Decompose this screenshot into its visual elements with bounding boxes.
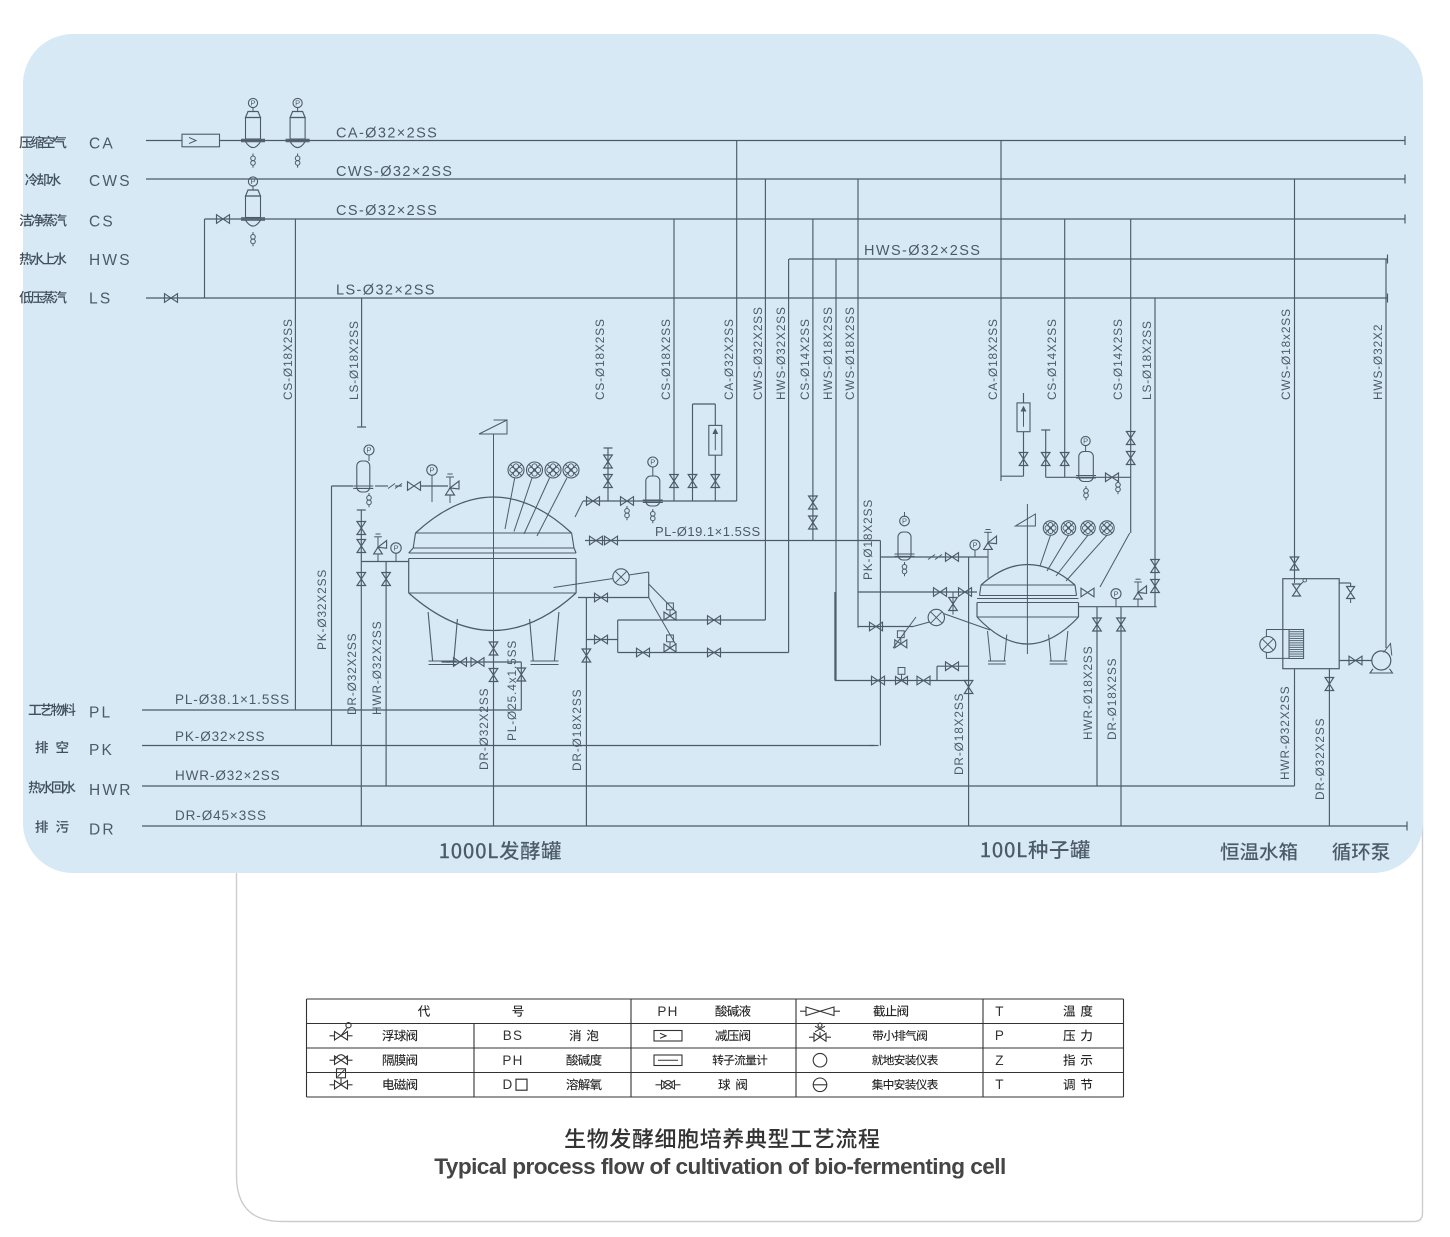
svg-text:DR-Ø18X2SS: DR-Ø18X2SS [1105,658,1119,740]
svg-text:HWR-Ø32X2SS: HWR-Ø32X2SS [370,621,384,715]
svg-text:LS: LS [89,291,112,308]
svg-text:Z: Z [995,1053,1004,1068]
svg-text:T: T [995,1004,1004,1019]
svg-text:HWS-Ø32X2: HWS-Ø32X2 [1371,324,1385,400]
svg-text:HWS-Ø18X2SS: HWS-Ø18X2SS [821,306,835,400]
svg-text:P: P [1113,589,1118,598]
svg-text:P: P [393,544,398,553]
svg-text:P: P [995,1028,1005,1043]
svg-text:P: P [295,99,300,108]
svg-text:HWR: HWR [89,782,133,799]
svg-text:CS-Ø14X2SS: CS-Ø14X2SS [1045,318,1059,400]
svg-text:PH: PH [502,1053,523,1068]
svg-text:CA-Ø18X2SS: CA-Ø18X2SS [986,318,1000,400]
svg-text:LS-Ø18X2SS: LS-Ø18X2SS [1140,320,1154,400]
svg-text:PK-Ø32X2SS: PK-Ø32X2SS [315,569,329,650]
svg-text:DR-Ø18X2SS: DR-Ø18X2SS [952,693,966,775]
svg-text:P: P [972,541,977,550]
svg-text:T: T [995,1077,1004,1092]
svg-text:P: P [366,446,371,455]
svg-text:P: P [429,466,434,475]
svg-text:CA-Ø32X2SS: CA-Ø32X2SS [722,318,736,400]
svg-text:CWS-Ø18X2SS: CWS-Ø18X2SS [843,306,857,400]
svg-text:P: P [250,177,255,186]
svg-text:LS-Ø32×2SS: LS-Ø32×2SS [336,283,436,299]
svg-text:PL: PL [89,705,112,722]
svg-text:CS-Ø32×2SS: CS-Ø32×2SS [336,203,438,219]
svg-text:CS-Ø18X2SS: CS-Ø18X2SS [281,318,295,400]
svg-text:DR-Ø45×3SS: DR-Ø45×3SS [175,808,267,823]
svg-text:D: D [503,1077,514,1092]
svg-text:PK-Ø32×2SS: PK-Ø32×2SS [175,729,265,744]
svg-text:HWS-Ø32×2SS: HWS-Ø32×2SS [864,243,981,259]
svg-text:CWS: CWS [89,173,132,190]
svg-text:CS-Ø14X2SS: CS-Ø14X2SS [798,318,812,400]
svg-text:HWR-Ø18X2SS: HWR-Ø18X2SS [1081,646,1095,740]
svg-text:DR-Ø18X2SS: DR-Ø18X2SS [570,689,584,771]
svg-text:HWR-Ø32×2SS: HWR-Ø32×2SS [175,768,281,783]
svg-text:DR-Ø32X2SS: DR-Ø32X2SS [477,688,491,770]
svg-text:CA: CA [89,136,115,153]
svg-text:CS-Ø18X2SS: CS-Ø18X2SS [659,318,673,400]
svg-text:PK-Ø18X2SS: PK-Ø18X2SS [861,499,875,580]
svg-text:HWR-Ø32X2SS: HWR-Ø32X2SS [1278,686,1292,780]
svg-text:PK: PK [89,742,114,759]
svg-text:CS-Ø18X2SS: CS-Ø18X2SS [593,318,607,400]
svg-text:P: P [902,517,907,526]
svg-text:CS-Ø14X2SS: CS-Ø14X2SS [1111,318,1125,400]
svg-text:Typical process flow of cultiv: Typical process flow of cultivation of b… [434,1154,1006,1179]
svg-text:CWS-Ø18x2SS: CWS-Ø18x2SS [1279,308,1293,400]
svg-text:PL-Ø25.4x1.5SS: PL-Ø25.4x1.5SS [505,640,519,741]
svg-text:DR-Ø32X2SS: DR-Ø32X2SS [1313,718,1327,800]
svg-text:P: P [1083,437,1088,446]
svg-text:P: P [250,99,255,108]
svg-text:DR: DR [89,822,116,839]
svg-text:HWS-Ø32X2SS: HWS-Ø32X2SS [774,306,788,400]
svg-text:PL-Ø38.1×1.5SS: PL-Ø38.1×1.5SS [175,692,290,707]
svg-text:P: P [650,458,655,467]
svg-text:DR-Ø32X2SS: DR-Ø32X2SS [345,633,359,715]
svg-text:HWS: HWS [89,252,132,269]
svg-text:PL-Ø19.1×1.5SS: PL-Ø19.1×1.5SS [655,524,761,539]
svg-text:CWS-Ø32X2SS: CWS-Ø32X2SS [751,306,765,400]
svg-text:PH: PH [657,1004,678,1019]
svg-text:CA-Ø32×2SS: CA-Ø32×2SS [336,126,438,142]
svg-text:LS-Ø18X2SS: LS-Ø18X2SS [347,320,361,400]
svg-text:CWS-Ø32×2SS: CWS-Ø32×2SS [336,164,453,180]
svg-text:CS: CS [89,214,115,231]
svg-text:BS: BS [503,1028,523,1043]
